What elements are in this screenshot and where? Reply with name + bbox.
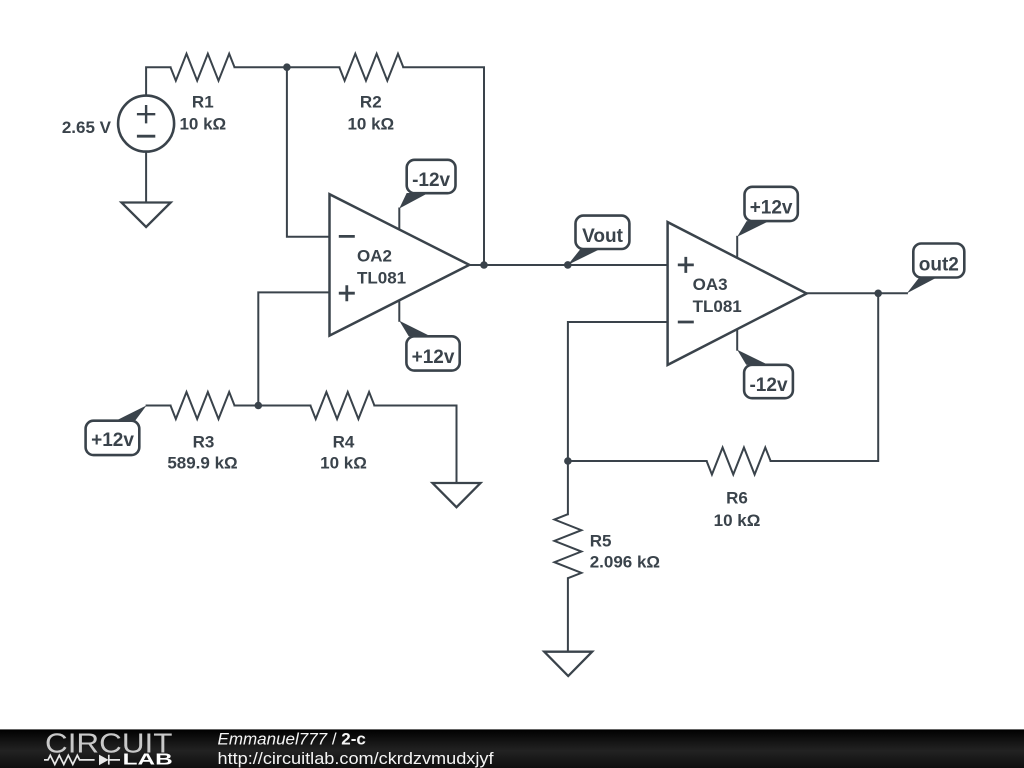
svg-text:2.096 kΩ: 2.096 kΩ [590,553,660,572]
wire R3 to node B [235,405,259,407]
resistor R2 10 k [339,54,403,134]
wire node A to R2 [287,66,339,68]
resistor R5 2.096 k (vertical) [554,514,660,578]
svg-text:10 kΩ: 10 kΩ [179,115,226,134]
flag +12v OA3 V+ [737,187,798,237]
node C junction [564,457,572,465]
wire output node down and R6 right lead [771,293,879,461]
wire node B to R4 [258,405,310,407]
CircuitLab logo schematic glyph [44,755,120,765]
svg-text:R5: R5 [590,532,612,551]
svg-text:R3: R3 [193,433,215,452]
svg-text:10 kΩ: 10 kΩ [320,454,367,473]
CircuitLab logo diode [99,755,109,766]
ground under voltage source [122,203,171,228]
wire OA2 output to OA3 noninverting input [469,264,667,266]
svg-text:2.65 V: 2.65 V [62,118,112,137]
svg-text:Emmanuel777 / 2-c: Emmanuel777 / 2-c [218,729,366,748]
wire VS bottom to ground [145,152,147,203]
flag +12v at R3 [86,405,147,455]
flag -12v OA3 V- [737,350,793,398]
wire R1 to node A [235,66,287,68]
wire OA3 V+ pin [736,237,738,258]
svg-text:R2: R2 [360,93,382,112]
resistor R1 10 k [171,54,235,134]
svg-text:10 kΩ: 10 kΩ [714,511,761,530]
wire OA3 V- pin [736,329,738,350]
voltage source V1 2.65 V [62,96,174,152]
resistor R4 10 k [310,392,374,473]
wire node C to R5 [567,461,569,514]
wire R2 feedback down to OA2 output node [403,67,484,265]
svg-text:R6: R6 [726,489,748,508]
node Vout junction [564,261,572,269]
flag +12v OA2 V+ [399,321,459,371]
svg-text:Vout: Vout [582,226,623,247]
wire node A to OA2 inverting input [287,67,330,237]
ground under R5 [544,652,592,676]
svg-text:+12v: +12v [412,347,455,368]
wire R5 to ground [567,578,569,651]
node B junction [254,402,262,410]
svg-text:LAB: LAB [123,752,173,768]
node A junction [283,63,291,71]
svg-text:589.9 kΩ: 589.9 kΩ [167,454,237,473]
wire OA3 inverting input to node C [568,322,668,461]
svg-text:R4: R4 [333,433,355,452]
resistor R3 589.9 k [167,392,237,473]
svg-text:R1: R1 [192,93,214,112]
svg-text:+12v: +12v [91,430,134,451]
flag -12v OA2 V- [399,160,455,209]
svg-text:TL081: TL081 [357,269,406,288]
svg-text:TL081: TL081 [693,297,742,316]
wire OA2 V- pin [398,209,400,230]
op-amp OA3 TL081 [668,222,807,365]
ground under R4 [433,483,481,507]
wire +12v flag to R3 [147,405,171,407]
flag Vout [568,216,630,265]
wire node C to R6 [568,460,707,462]
wire R4 to ground [374,406,456,484]
svg-text:out2: out2 [919,255,959,276]
wire VS top to R1 [146,67,170,96]
svg-text:-12v: -12v [412,170,450,191]
wire OA3 output to out2 anchor [807,292,907,294]
flag out2 [907,244,964,294]
svg-text:http://circuitlab.com/ckrdzvmu: http://circuitlab.com/ckrdzvmudxjyf [218,749,494,768]
svg-text:-12v: -12v [749,375,787,396]
footer bar [0,729,1024,768]
svg-text:OA3: OA3 [693,275,728,294]
op-amp OA2 TL081 [330,194,470,335]
resistor R6 10 k [707,448,771,531]
wire OA2 V+ pin [398,300,400,321]
svg-text:10 kΩ: 10 kΩ [347,115,394,134]
svg-text:+12v: +12v [750,198,793,219]
svg-text:OA2: OA2 [357,247,392,266]
node out2 junction [874,290,882,298]
wire OA2 non-inverting input to node B [258,292,329,405]
node OA2 output junction [480,261,488,269]
